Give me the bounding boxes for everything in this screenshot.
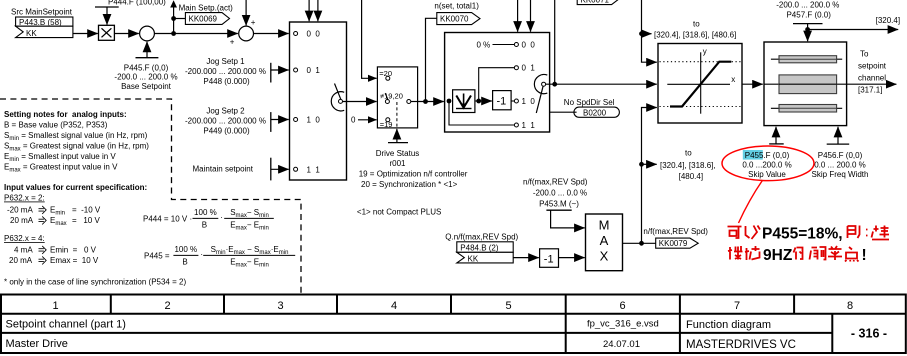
svg-text:MASTERDRIVES VC: MASTERDRIVES VC	[686, 339, 796, 351]
contact 11	[514, 123, 518, 127]
svg-text:Drive Status: Drive Status	[376, 149, 420, 158]
svg-text:0: 0	[351, 116, 356, 125]
control wire into mux1 top a (clipped)	[308, 0, 310, 21]
wire to sheet ref 320.4 lower	[642, 163, 657, 165]
formula P444	[143, 208, 274, 232]
junction KK0071 tap	[552, 82, 557, 87]
svg-text:KK: KK	[26, 29, 37, 38]
connector KK0071 (clipped at top)	[577, 0, 620, 5]
wire V block to -1 gain	[476, 100, 492, 102]
wire branch to sheet ref 320.4 right	[808, 29, 899, 31]
svg-text:Setpoint channel (part 1): Setpoint channel (part 1)	[6, 319, 126, 331]
wire to KK0069 flag	[174, 18, 186, 20]
svg-text:3: 3	[277, 300, 283, 312]
svg-text:P445 =: P445 =	[144, 252, 170, 261]
svg-text:Setting notes for analog inpu: Setting notes for analog inputs:	[4, 110, 127, 119]
svg-text:B = Base value (P352, P353): B = Base value (P352, P353)	[4, 121, 108, 130]
wire branch up to output (clipped)	[173, 8, 175, 34]
connector KK0069	[185, 13, 229, 25]
contact 11	[294, 167, 298, 171]
svg-text:-200.0 ... 0.0 %: -200.0 ... 0.0 %	[533, 189, 587, 198]
wire mid right contact to box edge	[411, 101, 418, 103]
svg-text:A: A	[600, 233, 609, 248]
wire adder 2 to mux row 00	[254, 33, 289, 35]
wire up to KK0070 flag	[426, 18, 437, 101]
wire P444 into multiplier	[106, 7, 108, 25]
limiter upper limit dotted line	[660, 61, 741, 63]
title block outer frame	[1, 295, 906, 354]
svg-text:Skip Freq Width: Skip Freq Width	[812, 170, 869, 179]
wire P484 to -1 gain	[513, 257, 539, 259]
direction selector box U3	[445, 33, 550, 133]
adder 2	[239, 26, 254, 41]
skip band middle bar	[779, 75, 837, 94]
svg-text:100 %: 100 %	[174, 245, 197, 254]
wire multiplier to adder 1	[114, 33, 138, 35]
svg-text:4: 4	[391, 300, 397, 312]
svg-text:P457.F (0.0): P457.F (0.0)	[786, 11, 831, 20]
setpoint selector switch box U1	[290, 22, 347, 180]
svg-text:Src MainSetpoint: Src MainSetpoint	[11, 8, 73, 17]
svg-text:P455.F (0,0): P455.F (0,0)	[745, 151, 790, 160]
svg-text:KK0079: KK0079	[659, 239, 688, 248]
svg-text:[320.4]: [320.4]	[876, 16, 900, 25]
junction main wire / KK0069 branch	[171, 31, 176, 36]
limiter saturation curve	[670, 62, 731, 107]
wire input bypass down to contact 11	[449, 101, 514, 125]
wire jog2 into mux row 10	[271, 119, 289, 121]
skip band top line	[771, 58, 842, 60]
svg-text:0 1: 0 1	[522, 64, 536, 73]
setpoint reduction block	[453, 90, 475, 113]
svg-text:to: to	[693, 20, 700, 29]
svg-text:[320.4], [318.6], [480.6]: [320.4], [318.6], [480.6]	[654, 31, 736, 40]
svg-text:1 1: 1 1	[307, 165, 321, 174]
parameter terminal P453	[546, 209, 571, 211]
control wire into mux1 top b (clipped)	[317, 0, 319, 21]
svg-text:B: B	[182, 258, 187, 267]
wiper of mux1	[331, 84, 344, 111]
svg-text:setpoint: setpoint	[858, 62, 887, 71]
svg-text:7: 7	[734, 300, 740, 312]
svg-text:20 mA: 20 mA	[10, 216, 34, 225]
wire P457 into skip block top	[807, 24, 809, 42]
multiplier	[99, 25, 115, 40]
row separator 2	[0, 332, 832, 334]
svg-text:x: x	[731, 75, 735, 84]
connector P443.B (58) KK source flag	[16, 17, 73, 38]
control wire into mux2 top a (clipped)	[517, 0, 519, 32]
junction KK0069 tap	[171, 16, 176, 21]
contact =19	[386, 118, 390, 122]
gain -1 block	[493, 91, 512, 110]
svg-text:+: +	[251, 18, 256, 27]
row separator 1	[0, 313, 906, 315]
svg-text:* only in the case of line syn: * only in the case of line synchronizati…	[4, 278, 186, 287]
binector B0200	[574, 107, 620, 117]
main signal line through block	[764, 83, 847, 85]
svg-text:KK0069: KK0069	[189, 15, 218, 24]
parameter terminal P457	[793, 23, 823, 25]
svg-text:P444 = 10 V ·: P444 = 10 V ·	[143, 215, 192, 224]
svg-text:2: 2	[164, 300, 170, 312]
contact mid right	[407, 100, 411, 104]
junction bus lower tap	[639, 162, 644, 167]
drive status selector box U2	[377, 67, 417, 128]
svg-text:[317.1]: [317.1]	[858, 86, 882, 95]
svg-text:=20: =20	[379, 69, 392, 78]
svg-text:P456.F (0,0): P456.F (0,0)	[818, 151, 863, 160]
svg-text:19 = Optimization n/f controll: 19 = Optimization n/f controller	[359, 170, 468, 179]
contact =20	[386, 76, 390, 80]
wiper blade	[385, 93, 388, 100]
wire V-block output up to contact 01	[479, 68, 514, 101]
svg-text:B: B	[202, 221, 207, 230]
svg-text:Base Setpoint: Base Setpoint	[121, 82, 172, 91]
svg-text:to: to	[685, 149, 692, 158]
svg-text:KK0070: KK0070	[440, 15, 469, 24]
limiter y axis	[700, 52, 702, 113]
svg-text:<1> not Compact PLUS: <1> not Compact PLUS	[357, 208, 442, 217]
svg-text:X: X	[600, 249, 609, 264]
junction at mux2 input	[447, 99, 452, 104]
svg-text:r001: r001	[389, 159, 406, 168]
wire B0200 to wiper	[550, 111, 577, 113]
connector KK0079	[656, 238, 699, 248]
contact mid left	[385, 100, 389, 104]
contact 00	[294, 32, 298, 36]
wire drive status r001 up into selector	[396, 129, 398, 143]
svg-text:Skip Value: Skip Value	[748, 170, 786, 179]
parameter terminal P444	[95, 6, 119, 8]
svg-text:-20 mA: -20 mA	[7, 206, 33, 215]
svg-text:[320.4], [318.6],: [320.4], [318.6],	[660, 161, 716, 170]
svg-text:P455=18%,: P455=18%,	[762, 225, 843, 242]
svg-text:24.07.01: 24.07.01	[603, 339, 640, 350]
contact 10	[294, 118, 298, 122]
svg-text:0 0: 0 0	[307, 30, 321, 39]
svg-text:1 0: 1 0	[522, 97, 536, 106]
wire jog input from top into adder 2 (clipped)	[245, 0, 247, 25]
wire 0% to contact 00	[493, 44, 515, 46]
svg-text:!: !	[862, 247, 867, 264]
svg-text:[480.4]: [480.4]	[679, 172, 703, 181]
column dividers number strip	[111, 295, 833, 354]
svg-text:KK: KK	[468, 254, 479, 263]
skip band top bar	[779, 56, 837, 63]
formula P445	[144, 245, 295, 269]
svg-text:Jog Setp 1: Jog Setp 1	[206, 57, 245, 66]
wire mux2 output	[546, 83, 657, 85]
dashed notes frame	[0, 99, 301, 294]
wire constant 0 to contact =19	[358, 119, 377, 121]
svg-text:-200.0 ... 200.0 %: -200.0 ... 200.0 %	[114, 73, 177, 82]
junction MAX output to feedback bus	[639, 241, 644, 246]
limiter x axis	[667, 83, 730, 85]
svg-text:B0200: B0200	[583, 108, 607, 117]
svg-text:Emin = 0 V: Emin = 0 V	[50, 246, 97, 255]
parameter terminal P445	[136, 57, 159, 59]
svg-text:-200.000 ... 200.000 %: -200.000 ... 200.000 %	[185, 117, 266, 126]
svg-text:9HZ: 9HZ	[763, 247, 793, 264]
svg-text:P448 (0.000): P448 (0.000)	[203, 77, 250, 86]
parameter terminal jog1	[270, 63, 272, 83]
svg-text:1 0: 1 0	[307, 116, 321, 125]
wire feed to contact =20 (clipped at top)	[362, 0, 369, 78]
skip band bottom bar	[779, 105, 837, 113]
skip frequency block U5	[764, 42, 847, 126]
wire P455 into skip block bottom	[775, 127, 777, 144]
svg-text:·: ·	[200, 250, 203, 259]
wiper of mux2	[534, 75, 547, 114]
svg-text:Master Drive: Master Drive	[6, 338, 68, 350]
svg-text:P444.F (100,00): P444.F (100,00)	[108, 0, 166, 6]
svg-text:fp_vc_316_e.vsd: fp_vc_316_e.vsd	[587, 319, 659, 330]
svg-text:20 = Synchronization * <1>: 20 = Synchronization * <1>	[361, 180, 458, 189]
limiter lower limit dotted line	[660, 106, 741, 108]
svg-text:-200.000 ... 200.000 %: -200.000 ... 200.000 %	[185, 67, 266, 76]
svg-text:0.0 ... 200.0 %: 0.0 ... 200.0 %	[814, 160, 866, 169]
svg-text:0 0: 0 0	[522, 41, 536, 50]
red note line 2 (CJK glyphs stylized)	[728, 246, 760, 260]
wire skip block output	[847, 83, 897, 85]
svg-text:-1: -1	[497, 96, 507, 108]
svg-text:channel: channel	[858, 74, 886, 83]
svg-text:To: To	[860, 50, 869, 59]
contact 01	[514, 66, 518, 70]
svg-text:5: 5	[505, 300, 511, 312]
svg-text:P449 (0.000): P449 (0.000)	[203, 127, 250, 136]
svg-text:Main Setp.(act): Main Setp.(act)	[179, 4, 234, 13]
svg-text:y: y	[703, 47, 707, 56]
arrow into limiter lower limit	[650, 107, 657, 109]
svg-text:-200.0 ... 200.0 %: -200.0 ... 200.0 %	[776, 1, 839, 10]
wire -1 to MAX	[559, 257, 585, 259]
parameter terminal P456	[827, 143, 850, 145]
svg-text:1 1: 1 1	[522, 121, 536, 130]
wire P456 into skip block bottom	[837, 127, 839, 144]
MAX block U6	[586, 214, 623, 271]
svg-text:8: 8	[847, 300, 853, 312]
red highlight ellipse around P455	[722, 146, 814, 181]
red pointer line	[739, 180, 763, 223]
svg-text:100 %: 100 %	[194, 208, 217, 217]
svg-text:-1: -1	[544, 253, 554, 265]
parameter terminal P455	[769, 143, 784, 145]
svg-text:0 1: 0 1	[307, 66, 321, 75]
junction after V block	[476, 99, 481, 104]
wire P453 into MAX	[551, 210, 585, 228]
svg-text:- 316 -: - 316 -	[851, 327, 887, 341]
wire limiter output to skip block	[742, 83, 763, 85]
wire mux1 output to drive-status selector	[343, 101, 377, 103]
wire n/f max feedback bus upper segment (clipped at top)	[642, 0, 650, 62]
svg-text:6: 6	[619, 300, 625, 312]
junction bus upper tap	[639, 31, 644, 36]
dashed control line inside selector	[396, 102, 398, 128]
contact 01	[294, 68, 298, 72]
svg-text:Function diagram: Function diagram	[686, 319, 771, 331]
parameter terminal maintain	[270, 158, 272, 181]
wire MAX output to KK0079	[623, 242, 656, 244]
svg-text:P453.M (~): P453.M (~)	[539, 199, 579, 208]
svg-text:P445.F (0,0): P445.F (0,0)	[124, 64, 169, 73]
svg-text:P632.x = 4:: P632.x = 4:	[4, 234, 45, 243]
connector KK0070	[437, 13, 480, 25]
wire KK flag to multiplier	[73, 33, 98, 35]
svg-text:n/f(max,REV Spd): n/f(max,REV Spd)	[523, 178, 588, 187]
wire selector output to mux2	[418, 101, 444, 103]
adder 1	[140, 26, 155, 41]
svg-text:4 mA: 4 mA	[14, 246, 33, 255]
connector P484.B (2) KK source flag	[457, 242, 513, 263]
svg-text:Maintain setpoint: Maintain setpoint	[193, 165, 254, 174]
svg-text:+: +	[230, 38, 235, 47]
svg-text:M: M	[599, 218, 610, 233]
svg-text:20 mA: 20 mA	[9, 256, 33, 265]
svg-text:P632.x = 2:: P632.x = 2:	[4, 194, 45, 203]
svg-text:P443.B (58): P443.B (58)	[19, 18, 62, 27]
wire to sheet ref 320.4 upper	[642, 33, 652, 35]
svg-text:n/f(max,REV Spd): n/f(max,REV Spd)	[643, 227, 708, 236]
svg-text:No SpdDir Sel: No SpdDir Sel	[564, 98, 615, 107]
control wire into mux2 top b (clipped)	[530, 0, 532, 32]
parameter terminal r001	[388, 142, 408, 144]
svg-text:Emax = 10 V: Emax = 10 V	[50, 256, 99, 265]
svg-text:·: ·	[220, 213, 223, 222]
wire P445 into adder 1	[146, 42, 148, 58]
svg-text:Q.n/f(max,REV Spd): Q.n/f(max,REV Spd)	[445, 233, 518, 242]
junction KK0070 tap	[423, 99, 428, 104]
contact 00	[514, 43, 518, 47]
svg-text:=19: =19	[380, 120, 393, 129]
svg-text:0 %: 0 %	[477, 40, 491, 49]
svg-text:≠19,20: ≠19,20	[380, 91, 403, 100]
contact 10	[514, 99, 518, 103]
wire jog1 into mux row 01	[271, 69, 289, 71]
red note line 1 (CJK glyphs stylized)	[728, 226, 761, 240]
svg-text:P484.B (2): P484.B (2)	[460, 244, 499, 253]
svg-text:KK0071: KK0071	[581, 0, 610, 5]
svg-text:Input values for current speci: Input values for current specification:	[4, 183, 147, 192]
wire n/f max feedback bus lower segment	[642, 108, 650, 244]
junction P457 branch	[805, 27, 810, 32]
wire adder 1 to adder 2	[154, 33, 237, 35]
highlight on P455	[743, 150, 763, 160]
arrow into limiter upper limit	[650, 61, 657, 63]
skip band bottom line	[771, 107, 842, 109]
limiter block U4	[658, 44, 742, 124]
parameter terminal jog2	[270, 112, 272, 132]
wire -1 to contact 10	[511, 100, 514, 102]
svg-text:n(set, total1): n(set, total1)	[434, 1, 479, 10]
svg-text:0.0 ...200.0 %: 0.0 ...200.0 %	[742, 160, 791, 169]
svg-text:Jog Setp 2: Jog Setp 2	[206, 107, 245, 116]
wire maintain into mux row 11	[271, 168, 289, 170]
gain -1 block (lower)	[540, 249, 559, 267]
svg-text:1: 1	[52, 300, 58, 312]
wire up to KK0071 (clipped)	[554, 0, 556, 84]
